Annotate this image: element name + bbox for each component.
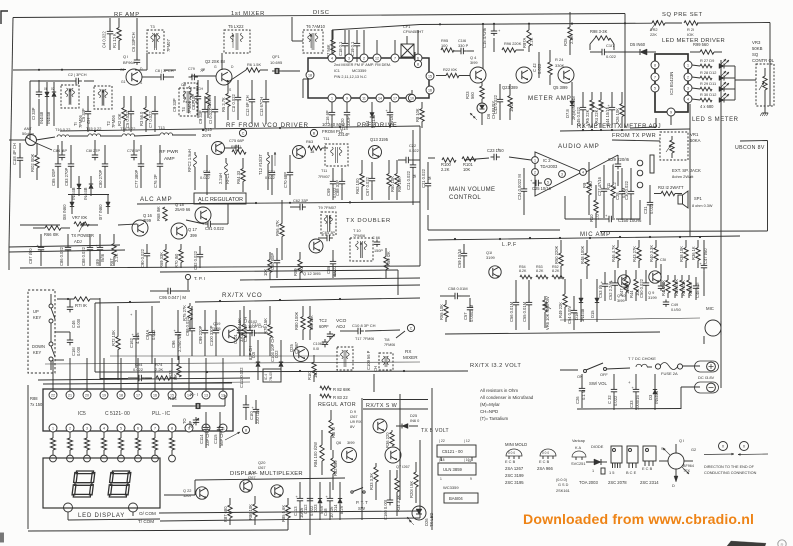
label R88 7x150 — [30, 396, 43, 407]
svg-text:7FM06: 7FM06 — [353, 233, 365, 238]
transformer T10 7FM06 — [350, 228, 373, 261]
svg-text:0.022: 0.022 — [409, 148, 419, 153]
pin 3 IC1 — [345, 54, 353, 62]
svg-text:C160 0.00I: C160 0.00I — [383, 500, 388, 520]
wire vco top bus — [95, 298, 420, 303]
label RF AMP — [13, 12, 140, 71]
capacitor C32 0.022 — [607, 374, 618, 410]
capacitor C70 68P — [283, 155, 293, 195]
capacitor C108 3P CH — [340, 323, 400, 334]
svg-text:8 ohm 0.3W: 8 ohm 0.3W — [692, 204, 713, 208]
switch SW/VOL — [577, 363, 630, 386]
svg-text:VR6 10K MAX 0IV: VR6 10K MAX 0IV — [545, 296, 550, 330]
fuse FUSE 2A — [655, 363, 700, 377]
resistor R97 2.2K — [522, 23, 534, 52]
svg-text:R40 3.3K: R40 3.3K — [649, 245, 654, 262]
svg-text:TX LED: TX LED — [429, 513, 434, 527]
svg-text:IN5401: IN5401 — [654, 390, 659, 404]
pin 11 IC5 bottom — [219, 424, 227, 432]
svg-text:R10: R10 — [589, 214, 594, 222]
label RF FROM VCO DRIVER — [226, 122, 309, 129]
svg-text:T12 #10/3T: T12 #10/3T — [258, 154, 263, 175]
capacitor C101 330P — [233, 310, 244, 356]
inductor RFC1 2.2uH — [218, 158, 230, 190]
svg-text:2.2K: 2.2K — [569, 35, 574, 44]
svg-text:3I99: 3I99 — [347, 440, 355, 445]
svg-text:T11: T11 — [323, 136, 330, 141]
trimmer TC2 60PF VCO ADJ — [319, 318, 347, 344]
resistor R36 1K — [691, 240, 700, 268]
svg-text:4: 4 — [331, 56, 333, 60]
svg-text:3I95: 3I95 — [213, 326, 221, 331]
corner scan artifact — [727, 541, 766, 546]
svg-text:C16 6P: C16 6P — [325, 110, 330, 124]
wire from tx pwr to VR1 — [612, 140, 660, 141]
svg-text:ADJ: ADJ — [74, 239, 82, 244]
capacitor C33 1000/16 — [628, 374, 640, 410]
svg-text:R7I IK: R7I IK — [75, 303, 87, 308]
svg-text:All resistors in Ohm: All resistors in Ohm — [480, 388, 518, 393]
wire right frame vertical — [721, 60, 770, 130]
svg-text:R4I 1.5K: R4I 1.5K — [661, 280, 666, 296]
resistor R80 10K — [308, 306, 314, 340]
svg-text:C77 380P: C77 380P — [134, 170, 139, 188]
svg-text:56P CH: 56P CH — [219, 432, 224, 446]
pin 13 IC5 top — [202, 358, 210, 399]
pin 4 IC3 — [684, 95, 692, 103]
svg-text:MIC: MIC — [706, 306, 714, 311]
resistor R55 10K — [439, 300, 448, 322]
svg-text:T3: T3 — [150, 24, 155, 29]
svg-text:330P: 330P — [346, 116, 351, 126]
svg-text:220 /10: 220 /10 — [255, 410, 260, 424]
svg-text:E C B: E C B — [539, 459, 550, 464]
svg-text:AUDIO AMP: AUDIO AMP — [558, 143, 600, 150]
wire pll feed lines — [38, 378, 250, 384]
legend TDA2003 package — [579, 446, 622, 485]
filter CF1 CFW455HT — [401, 24, 424, 57]
resistor R30 D12b — [700, 92, 716, 102]
wire doubler bottom bus — [240, 278, 420, 287]
capacitor C106A 0.01 — [313, 339, 328, 351]
svg-text:17: 17 — [136, 393, 140, 397]
svg-text:I267: I267 — [248, 475, 256, 480]
resistor R99 560 — [690, 42, 722, 54]
svg-text:R80 100K: R80 100K — [294, 312, 299, 330]
capacitor C78 5P — [127, 140, 140, 160]
svg-text:0.022: 0.022 — [332, 265, 337, 276]
resistor R88-7 150 — [152, 432, 159, 462]
svg-text:T/ COM: T/ COM — [138, 519, 154, 524]
crystal filter QF1 10.695 — [270, 54, 300, 74]
svg-text:0I: 0I — [44, 87, 47, 91]
node C driver input — [239, 129, 246, 136]
svg-text:Q13 3195: Q13 3195 — [370, 137, 389, 142]
transistor Q9 3199 — [648, 271, 661, 300]
svg-text:| 22: | 22 — [439, 439, 445, 443]
svg-text:SQ PRE SET: SQ PRE SET — [662, 12, 703, 18]
svg-text:TI8: TI8 — [384, 338, 390, 342]
capacitor C91 0.022 — [186, 204, 228, 231]
svg-text:18: 18 — [308, 73, 312, 77]
capacitor C21b vertical — [421, 162, 432, 210]
speaker SP1 — [678, 191, 713, 208]
svg-text:18: 18 — [119, 393, 123, 397]
svg-text:AMP: AMP — [164, 156, 175, 162]
box LED DISPLAY — [43, 458, 160, 508]
wire meter bus y130 — [560, 129, 690, 131]
capacitor C58 0.01M — [440, 286, 470, 299]
svg-text:C111 0.022: C111 0.022 — [239, 367, 244, 388]
svg-text:0.022: 0.022 — [265, 175, 275, 180]
svg-text:T4: T4 — [181, 106, 186, 112]
choke T7 DC CHOKE — [628, 356, 656, 367]
switch P.T.T SW — [351, 488, 368, 512]
capacitor C18 0.1 — [338, 30, 348, 62]
label RX/TX VCO — [222, 292, 263, 299]
pin 1 IC5 bottom — [49, 424, 57, 432]
svg-text:C162: C162 — [129, 337, 134, 348]
svg-text:VR1: VR1 — [690, 132, 699, 137]
svg-text:R72 10K: R72 10K — [111, 330, 116, 346]
svg-text:8.2K: 8.2K — [519, 269, 527, 273]
resistor R64b 100 1/2W — [313, 430, 324, 475]
diode D3 protection — [648, 374, 659, 410]
transformer T9 7FM07 — [318, 205, 337, 235]
capacitor C110 220/10 — [249, 400, 260, 424]
svg-text:R 27 D9: R 27 D9 — [700, 58, 714, 63]
svg-text:R9: R9 — [582, 182, 587, 188]
svg-text:C85 I20P: C85 I20P — [51, 169, 56, 186]
svg-text:7x 150: 7x 150 — [30, 402, 43, 407]
transistor Q25 C3997 — [289, 341, 309, 361]
svg-text:R48 100K: R48 100K — [580, 246, 585, 264]
svg-text:C 66: C 66 — [372, 236, 380, 240]
svg-text:15: 15 — [428, 74, 432, 78]
resistor R86 10K — [248, 496, 257, 525]
label R94 — [168, 396, 177, 462]
svg-text:1 5: 1 5 — [609, 470, 614, 475]
resistor R11 2.2 — [606, 165, 617, 218]
svg-text:| 12: | 12 — [464, 439, 470, 443]
transistor Q13 3195 — [369, 137, 389, 159]
diodes D7 D8 2K IN4148 — [565, 82, 576, 125]
svg-text:C84 I8P: C84 I8P — [53, 148, 67, 153]
svg-text:RX/TX I3.2 VOLT: RX/TX I3.2 VOLT — [470, 363, 521, 369]
svg-text:C 5121- 00: C 5121- 00 — [105, 411, 130, 417]
svg-text:C8 | 3PCH: C8 | 3PCH — [155, 68, 174, 73]
resistor R40 3.3K — [649, 240, 658, 268]
wire sq preset run — [332, 22, 770, 60]
svg-text:1st MIXER: 1st MIXER — [231, 11, 265, 17]
svg-text:2.2/50 NP: 2.2/50 NP — [177, 334, 182, 352]
svg-text:DIODE: DIODE — [591, 444, 604, 449]
resistor R50 220K — [554, 240, 563, 279]
LED D12b — [719, 93, 729, 103]
potentiometer VR2 22K — [650, 20, 665, 37]
transformer T17 7FM06 — [337, 337, 374, 370]
resistor R88-3 150 — [84, 432, 91, 462]
svg-text:VR3: VR3 — [752, 40, 761, 45]
label 4x680 — [700, 104, 714, 109]
resistor R87 680 — [223, 498, 232, 525]
resistor R4 47K — [206, 80, 212, 118]
svg-text:3: 3 — [687, 86, 689, 90]
capacitor C52 2.2/16 — [608, 270, 618, 301]
wire LED cathode bus — [692, 65, 735, 100]
pin 5 IC3 — [651, 84, 659, 92]
svg-text:R44: R44 — [629, 290, 634, 298]
wire multiplexer bus — [164, 478, 345, 495]
capacitor C95 0.047 M — [150, 288, 190, 300]
pin 9 IC5 bottom — [185, 424, 193, 432]
connector DC 13.8V plus — [695, 361, 719, 372]
resistor R88-5 150 — [118, 432, 125, 462]
svg-text:C70 68P: C70 68P — [283, 172, 288, 188]
svg-text:| 18: | 18 — [439, 458, 445, 462]
svg-text:3199: 3199 — [648, 295, 657, 300]
capacitor C113 10/16 — [293, 482, 304, 520]
resistor R88-4 150 — [101, 432, 108, 462]
svg-text:ALC AMP: ALC AMP — [140, 196, 172, 203]
capacitor C100 330P — [209, 310, 219, 356]
svg-text:10.695: 10.695 — [270, 60, 283, 65]
svg-text:7FM06: 7FM06 — [363, 337, 374, 341]
capacitor C89 15/16 — [95, 234, 105, 266]
svg-text:C18 0.1: C18 0.1 — [338, 41, 343, 56]
svg-text:SQ: SQ — [752, 52, 759, 57]
svg-text:C8I 27P: C8I 27P — [86, 148, 100, 153]
svg-text:1: 1 — [331, 96, 333, 100]
resistor R42 5.6K — [661, 275, 670, 298]
svg-text:C112: C112 — [303, 504, 308, 514]
capacitor C148 10/16 — [323, 482, 334, 520]
wire vco bottom bus — [45, 303, 420, 384]
svg-text:C4 0.022: C4 0.022 — [102, 31, 107, 48]
svg-text:C19 0.1: C19 0.1 — [350, 41, 355, 56]
transformer T4 7FM06 CH — [172, 83, 197, 116]
svg-text:7: 7 — [154, 426, 156, 430]
pin 3 IC2 — [559, 171, 566, 178]
capacitor C80 270P — [98, 145, 108, 188]
svg-text:6: 6 — [417, 56, 419, 60]
svg-text:C75 68P: C75 68P — [229, 138, 245, 143]
microphone MIC — [704, 306, 721, 344]
svg-text:7: 7 — [654, 75, 656, 79]
diode D5 IN60 — [614, 42, 656, 55]
svg-text:1000/16: 1000/16 — [635, 394, 640, 410]
svg-text:TC2: TC2 — [319, 318, 327, 323]
svg-text:METER AMP: METER AMP — [528, 95, 572, 102]
capacitor C49 0.1/50 — [663, 300, 682, 313]
resistor R75 27K — [182, 303, 192, 330]
svg-text:8.2K: 8.2K — [536, 269, 544, 273]
svg-text:D16: D16 — [574, 312, 579, 320]
svg-text:I267: I267 — [258, 465, 266, 470]
resistor R98 3-3K — [590, 29, 614, 50]
svg-text:2SC 3199: 2SC 3199 — [505, 473, 524, 478]
svg-text:2: 2 — [363, 56, 365, 60]
capacitor C64 3P — [318, 230, 335, 241]
diode D17 IN60 — [98, 195, 110, 220]
antenna ANT 50ohm — [9, 126, 37, 146]
svg-text:8ohm 2Watt: 8ohm 2Watt — [672, 174, 694, 179]
svg-text:G S D: G S D — [558, 483, 569, 487]
svg-text:C9 33P: C9 33P — [172, 98, 177, 112]
resistor R9 220 — [582, 162, 593, 215]
svg-text:C74: C74 — [203, 169, 211, 174]
capacitor C2 3PCH — [62, 72, 94, 84]
capacitor C6 33PCH — [131, 18, 140, 65]
capacitor C24 0.0022 M — [517, 168, 527, 215]
svg-text:WC3359: WC3359 — [443, 485, 459, 490]
svg-text:ADJ: ADJ — [336, 324, 346, 330]
wire alc to doubler — [9, 252, 420, 270]
diode D16 1N4148 — [574, 279, 585, 322]
svg-text:C54 0.0IV: C54 0.0IV — [567, 306, 572, 324]
pin 6 IC5 bottom — [134, 424, 142, 432]
svg-text:R: R — [780, 543, 783, 546]
capacitor C116 330P — [454, 38, 474, 54]
crystal X-1 — [172, 392, 225, 409]
svg-text:R 28 D12: R 28 D12 — [700, 70, 716, 75]
label FROM TX PWR — [612, 133, 656, 139]
resistor R26 10K — [615, 92, 624, 128]
svg-text:R62 100: R62 100 — [355, 178, 360, 194]
transistor Q15 2078 — [202, 127, 225, 155]
svg-text:2.2K: 2.2K — [529, 37, 534, 46]
capacitor C103 50P CH — [243, 310, 253, 356]
pin 18 IC5 top — [117, 358, 125, 399]
svg-text:C71: C71 — [268, 169, 275, 174]
capacitor C94 0.022 — [128, 362, 152, 381]
svg-text:C33: C33 — [629, 400, 634, 408]
pin 5 node — [414, 60, 421, 67]
svg-text:C87 I/50: C87 I/50 — [28, 248, 33, 264]
svg-text:BF964: BF964 — [683, 464, 694, 468]
svg-text:220: 220 — [588, 180, 593, 188]
transistor Q21 1267 — [240, 470, 257, 492]
capacitor C15 470/16 — [482, 23, 501, 52]
svg-text:R 83 22: R 83 22 — [333, 395, 348, 400]
capacitor C3 33P CH — [81, 96, 91, 132]
svg-text:4.7/16: 4.7/16 — [135, 332, 140, 344]
svg-text:8: 8 — [245, 429, 247, 433]
svg-text:2078: 2078 — [202, 133, 212, 138]
box ALC REGULATOR — [194, 193, 246, 204]
pin 19 IC5 top — [100, 358, 108, 399]
svg-text:IC 2: IC 2 — [543, 158, 551, 163]
pin 10 IC1 — [406, 94, 414, 102]
svg-text:7P: 7P — [201, 68, 206, 72]
svg-text:20: 20 — [85, 393, 89, 397]
svg-text:R46 4.7K: R46 4.7K — [611, 245, 616, 262]
svg-text:R8 10K: R8 10K — [415, 108, 420, 122]
svg-text:C9 33P: C9 33P — [198, 110, 203, 124]
pin 4 IC2 — [580, 169, 587, 176]
svg-text:R39 3.3K: R39 3.3K — [674, 279, 679, 296]
pin 9 IC3 — [667, 108, 675, 116]
svg-text:C3987: C3987 — [294, 341, 299, 354]
wire meter right frame — [630, 104, 690, 236]
svg-text:DISC: DISC — [313, 10, 330, 16]
svg-text:R69 33K: R69 33K — [159, 252, 164, 268]
resistor R83 22 — [320, 394, 348, 400]
pin 15 node — [408, 94, 415, 101]
svg-text:R 30 D12: R 30 D12 — [700, 92, 716, 97]
resistor R24 330K — [548, 50, 565, 85]
transformer T2 7FM06 — [94, 86, 116, 128]
svg-text:R11: R11 — [606, 182, 611, 190]
svg-text:4: 4 — [103, 426, 105, 430]
svg-text:FUSE 2A: FUSE 2A — [661, 371, 678, 376]
svg-text:C48 0.0I: C48 0.0I — [695, 283, 700, 298]
svg-text:MIC AMP: MIC AMP — [580, 232, 611, 238]
capacitor C22 0.022 — [398, 143, 420, 163]
transformer T18 7FM06 — [373, 338, 395, 372]
capacitor C19 0.1 — [350, 30, 360, 62]
diode D1 1N4148 — [39, 82, 49, 126]
wire RF amp mid bus — [30, 81, 62, 150]
svg-text:C52 2.2/I6: C52 2.2/I6 — [608, 280, 613, 300]
capacitor C112 0.022 — [303, 482, 314, 520]
label IC5 C5121-00 PLL-IC — [78, 411, 171, 417]
svg-text:Q7 I267: Q7 I267 — [396, 464, 410, 469]
IC5 PLL box — [43, 389, 233, 431]
legend conducting connection — [704, 442, 768, 456]
svg-text:10K: 10K — [263, 268, 268, 276]
resistor R56 47K — [275, 200, 284, 260]
resistor R10 1.0 — [589, 185, 600, 228]
resistor R101 10K — [462, 157, 476, 172]
capacitor C75 68P — [224, 138, 245, 151]
svg-text:TOA 2003: TOA 2003 — [579, 480, 598, 485]
pin 2 IC3 — [684, 73, 692, 81]
svg-text:Q 17: Q 17 — [188, 227, 198, 232]
svg-text:R60 10K: R60 10K — [390, 176, 395, 192]
svg-text:2SA 1267: 2SA 1267 — [505, 466, 524, 471]
capacitor C86b 270P — [64, 145, 74, 188]
label REGULATOR — [318, 402, 356, 408]
capacitor C86 0.022 — [59, 234, 71, 266]
svg-text:2.2K: 2.2K — [155, 367, 164, 372]
pin 4 IC5 bottom — [100, 424, 108, 432]
capacitor C64 18P — [53, 141, 67, 160]
svg-text:C64 3P: C64 3P — [322, 230, 335, 235]
svg-text:BA6I04: BA6I04 — [449, 496, 463, 501]
svg-text:C13 67CH: C13 67CH — [259, 97, 264, 116]
switch UP KEY — [33, 294, 55, 330]
svg-text:R65 1: R65 1 — [231, 144, 241, 149]
capacitor C69 0.022 — [326, 168, 337, 200]
label TX BVOLT — [396, 413, 449, 434]
resistor R2 10K — [117, 96, 126, 132]
svg-text:DC I3.8V: DC I3.8V — [698, 375, 715, 380]
svg-text:C 32: C 32 — [607, 395, 612, 404]
resistor R54 8.2K — [519, 265, 532, 279]
pin 5 IC5 bottom — [117, 424, 125, 432]
svg-text:LED DISPLAY: LED DISPLAY — [78, 513, 125, 519]
capacitor C25 10/16 — [530, 178, 552, 191]
wire alc bus — [9, 126, 420, 266]
svg-text:T11: T11 — [321, 169, 327, 173]
pin 5 IC2 — [545, 179, 552, 186]
svg-text:R6 1.5K: R6 1.5K — [247, 62, 261, 67]
svg-text:R22 I0K: R22 I0K — [443, 67, 457, 72]
wire top frame — [13, 14, 625, 129]
svg-text:C1I 0.022: C1I 0.022 — [231, 94, 236, 112]
svg-text:VR7 I0K: VR7 I0K — [72, 215, 88, 220]
